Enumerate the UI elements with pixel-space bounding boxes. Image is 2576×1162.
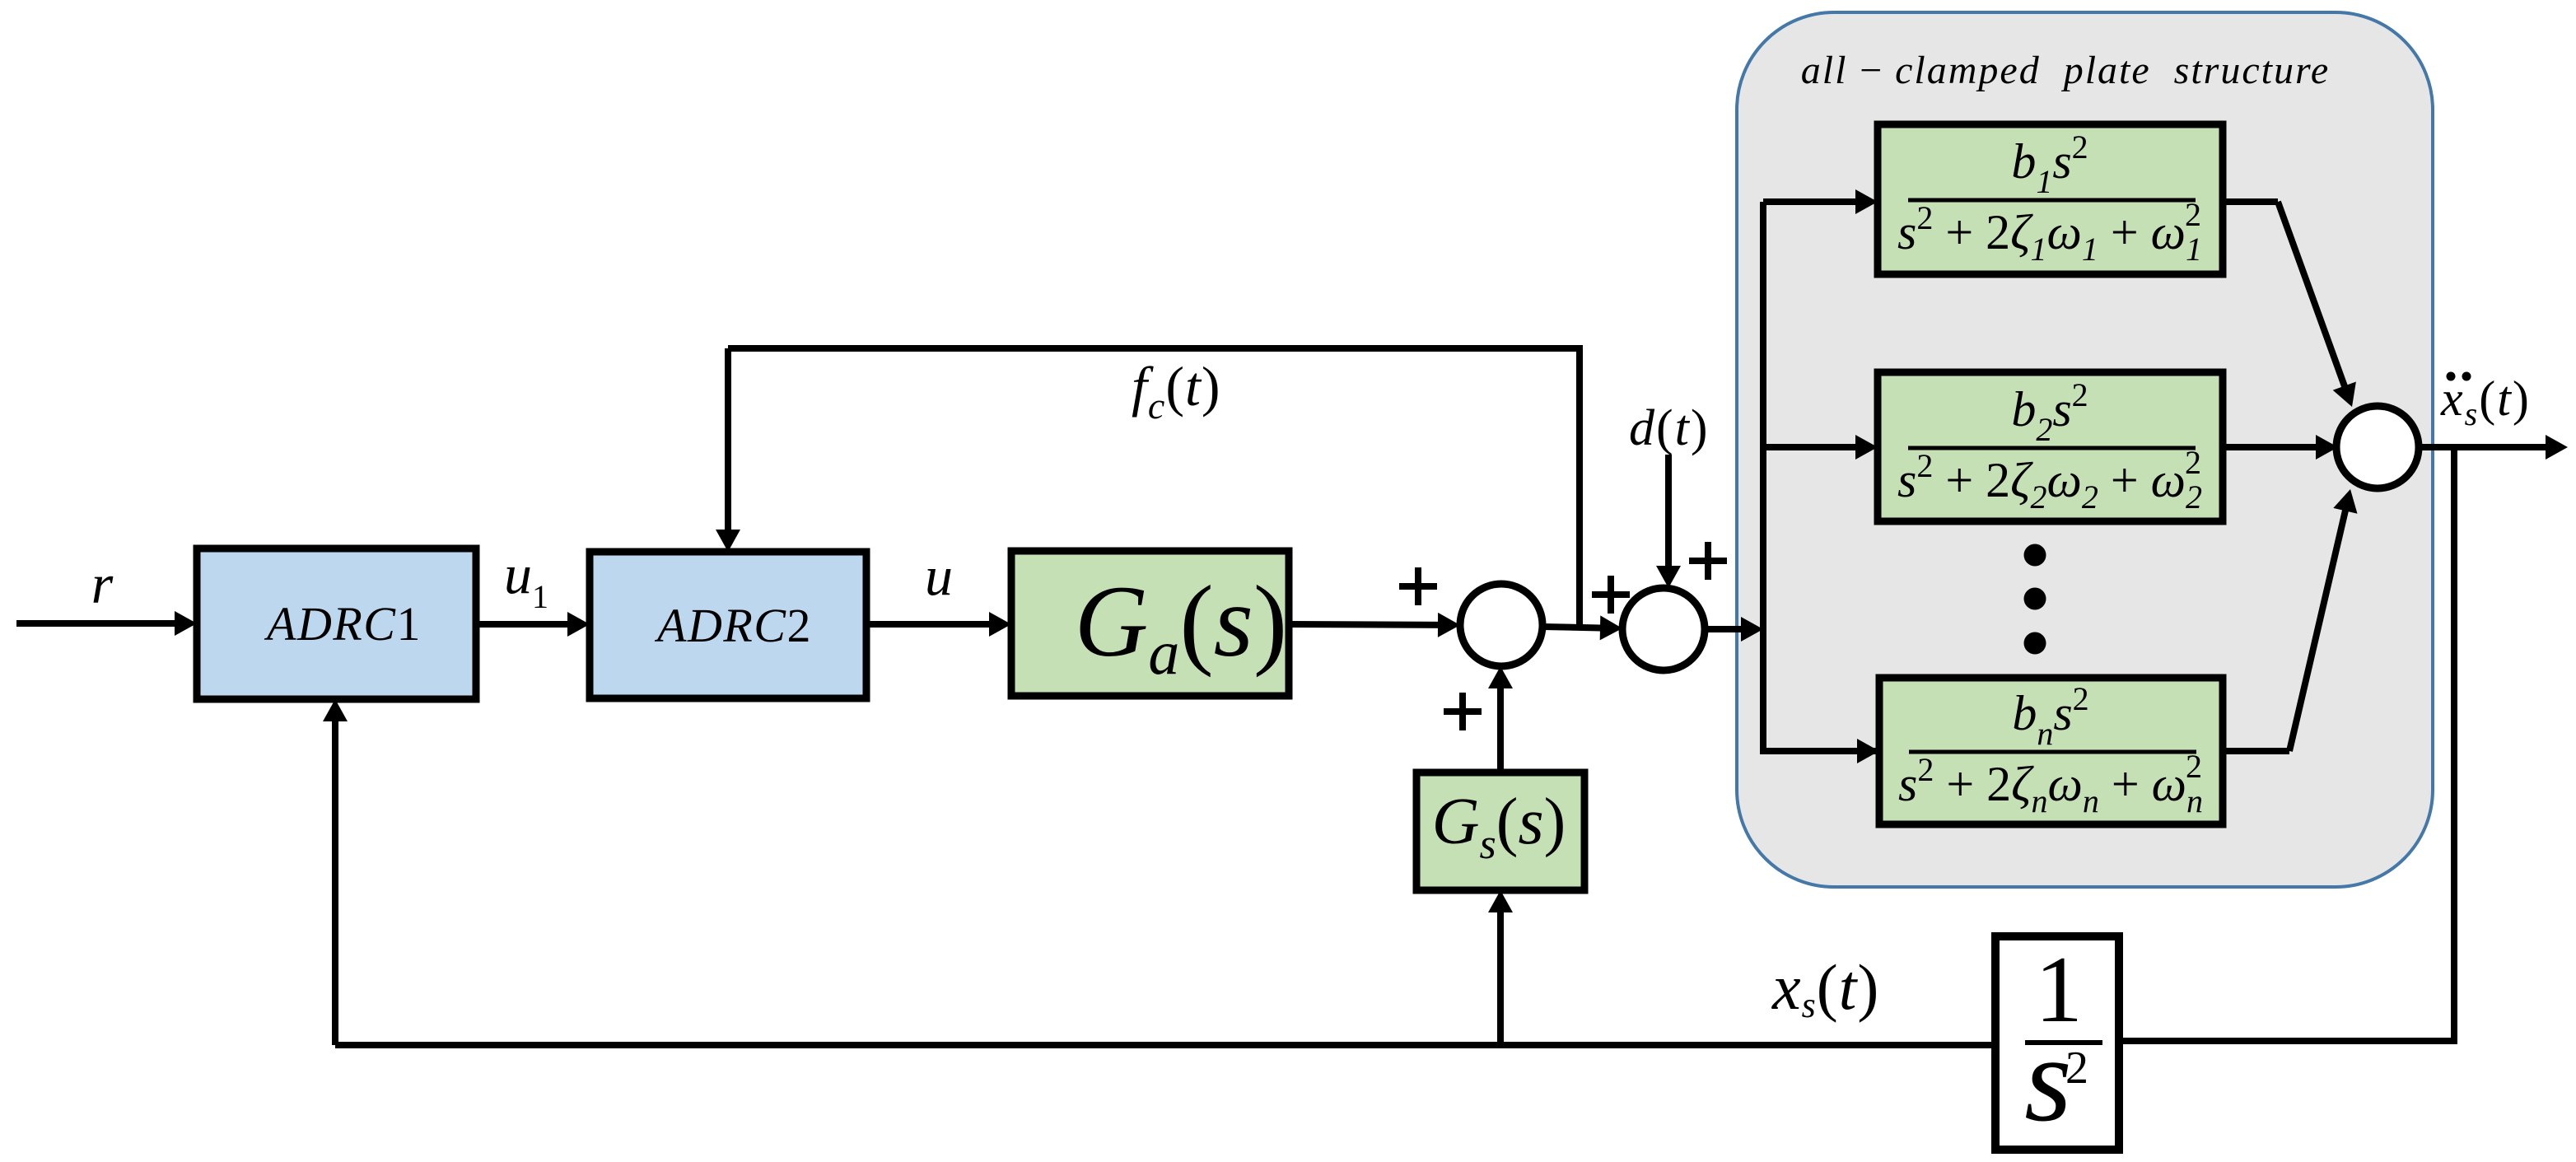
svg-text:xs(t): xs(t) — [1771, 951, 1879, 1025]
summing junction S3 (modal outputs) — [2336, 406, 2419, 488]
wire ADRC2 to Ga — [866, 612, 1011, 637]
svg-text:xs(t): xs(t) — [2440, 371, 2531, 432]
label r — [91, 553, 114, 615]
label fc(t) — [1132, 355, 1221, 427]
block ADRC2 — [590, 552, 866, 698]
label u1 — [504, 543, 548, 615]
svg-text:Gs(s): Gs(s) — [1432, 786, 1566, 868]
wire bus to mode 1 — [1763, 189, 1878, 214]
wire feedback line up into Gs bottom — [1488, 890, 1513, 1045]
label output acceleration xs(t) — [2440, 371, 2531, 432]
svg-text:d(t): d(t) — [1629, 400, 1710, 456]
plus sign at S2 top-right — [1689, 542, 1727, 580]
svg-text:ADRC1: ADRC1 — [264, 597, 422, 651]
svg-text:fc(t): fc(t) — [1132, 355, 1221, 427]
block mode n transfer function bns2/(s2+2znwn+wn2) — [1879, 678, 2223, 824]
wire bus branch arrow into mode n — [1857, 739, 1879, 763]
wire integrator output back to ADRC1 (node B) — [323, 699, 1995, 1045]
wire S3 output xdd — [2419, 435, 2568, 460]
plus sign at S2 left input — [1592, 576, 1630, 614]
wire bus to mode 2 — [1763, 435, 1878, 460]
wire Gs output up into S1 bottom — [1488, 666, 1513, 772]
svg-text:all − clamped plate structur: all − clamped plate structure — [1801, 49, 2330, 92]
block mode 1 transfer function b1s2/(s2+2z1w1+w12) — [1878, 124, 2223, 274]
wire S2 output into plant bus — [1705, 617, 1763, 642]
wire input r to ADRC1 — [16, 611, 197, 636]
summing junction S2 (plus disturbance d) — [1622, 588, 1705, 670]
svg-text:2: 2 — [2065, 1043, 2088, 1094]
block Gs(s) sensor — [1416, 772, 1584, 890]
label u — [925, 544, 953, 607]
label xs(t) — [1771, 951, 1879, 1025]
svg-text:s2 + 2ζ1ω1 + ω12: s2 + 2ζ1ω1 + ω12 — [1897, 196, 2202, 268]
wire mode 2 output to S3 — [2223, 435, 2338, 460]
svg-text:Ga(s): Ga(s) — [1075, 565, 1287, 688]
svg-text:s2 + 2ζ2ω2 + ω22: s2 + 2ζ2ω2 + ω22 — [1897, 444, 2202, 516]
label all-clamped plate structure — [1801, 49, 2330, 92]
block integrator 1/s2 — [1995, 936, 2119, 1150]
wire mode n output to S3 — [2223, 489, 2358, 751]
plus sign at S1 left input — [1399, 567, 1437, 605]
wire Ga to S1 — [1289, 613, 1460, 637]
wire output feedback drop to integrator — [2119, 447, 2454, 1041]
svg-text:s2 + 2ζnωn + ωn2: s2 + 2ζnωn + ωn2 — [1898, 748, 2203, 819]
summing junction S1 (control + Gs feedback) — [1460, 584, 1542, 666]
bus wire vertical with branch to mode n — [1763, 202, 1878, 751]
svg-text:u: u — [925, 544, 953, 607]
wire S1 to S2 — [1542, 615, 1622, 640]
wire ADRC1 to ADRC2 — [476, 612, 590, 637]
vertical ellipsis dots between mode blocks — [2024, 544, 2046, 655]
wire mode 1 output to S3 — [2223, 202, 2356, 407]
plant region all-clamped plate structure — [1737, 12, 2433, 887]
svg-text:r: r — [91, 553, 114, 615]
plus sign at S1 bottom input — [1444, 693, 1482, 730]
wire disturbance d(t) into S2 top — [1656, 455, 1681, 588]
label d(t) — [1629, 400, 1710, 456]
svg-text:ADRC2: ADRC2 — [654, 599, 812, 652]
wire fc feedback tap from node A to ADRC2 top — [716, 348, 1580, 627]
block ADRC1 — [197, 548, 476, 699]
block mode 2 transfer function b2s2/(s2+2z2w2+w22) — [1878, 372, 2223, 521]
block Ga(s) actuator — [1011, 551, 1289, 696]
